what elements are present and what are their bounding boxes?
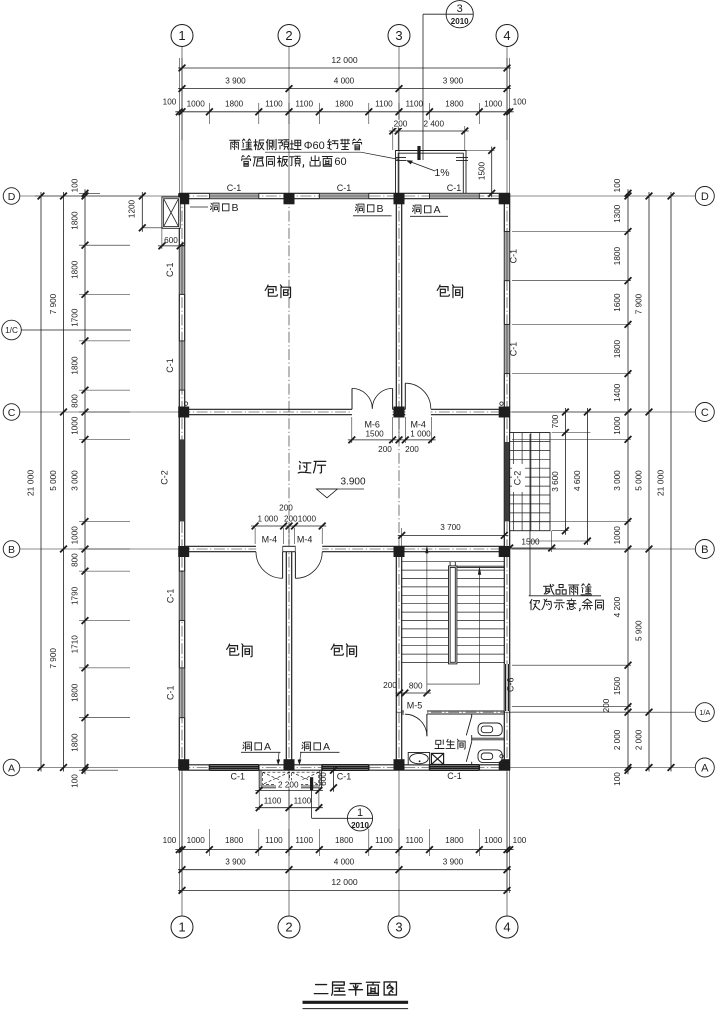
svg-text:100: 100 xyxy=(163,836,177,845)
svg-text:1800: 1800 xyxy=(335,836,354,845)
svg-text:4 600: 4 600 xyxy=(573,470,582,491)
note: canopy pipe annotation (2 lines) xyxy=(230,140,240,149)
svg-text:1800: 1800 xyxy=(71,683,80,702)
slope arrow 1% xyxy=(409,161,435,171)
svg-text:C-6: C-6 xyxy=(506,678,516,693)
dimension 200/800 (door M-5) xyxy=(396,692,431,694)
label 洞口A (bottom left) xyxy=(243,742,252,751)
floor openings box (bottom, axis 2) xyxy=(259,770,321,788)
extension lines left xyxy=(35,195,142,197)
grid line 1/A xyxy=(396,711,509,713)
window C-1 left wall upper 1 xyxy=(179,245,186,294)
svg-text:100: 100 xyxy=(613,772,622,786)
door M-4 right (row B) xyxy=(294,552,296,579)
svg-text:M-5: M-5 xyxy=(407,701,423,711)
dimension 3700 (hall to stair) xyxy=(398,534,509,536)
dimension chain bottom detail xyxy=(175,849,513,851)
window C-6 right wall (stair landing) dark xyxy=(504,664,510,711)
svg-text:1300: 1300 xyxy=(613,204,622,223)
room label 包间 (top-right) xyxy=(437,285,449,296)
svg-text:3: 3 xyxy=(395,920,402,935)
embedded pipe (top canopy) xyxy=(417,146,420,160)
wall column 3 lower (stair/bathroom west wall) xyxy=(395,552,397,765)
svg-text:600: 600 xyxy=(164,236,178,245)
extension lines top xyxy=(178,58,180,193)
svg-text:1500: 1500 xyxy=(365,430,384,439)
dimension 1200 (shaft) xyxy=(141,192,143,232)
stall door 2 (ajar) xyxy=(466,742,471,762)
wall left exterior xyxy=(178,193,180,770)
svg-text:Φ60: Φ60 xyxy=(304,140,325,152)
stair landing edge line xyxy=(457,565,504,567)
svg-text:1790: 1790 xyxy=(71,586,80,605)
axis circles top 1-4 xyxy=(171,25,193,47)
grid line 1/C xyxy=(22,329,132,331)
dimension 200/2400 (top canopy) xyxy=(389,130,469,132)
svg-text:1100: 1100 xyxy=(294,796,312,805)
svg-text:60: 60 xyxy=(334,156,346,168)
svg-text:3 900: 3 900 xyxy=(225,76,246,85)
grid line B xyxy=(20,548,179,550)
room label 卫生间 xyxy=(435,740,444,749)
svg-text:1100: 1100 xyxy=(264,796,282,805)
window C-1 left wall lower 1 xyxy=(179,571,186,621)
dimension line top 3900/4000/3900 xyxy=(178,88,511,90)
svg-text:M-4: M-4 xyxy=(410,420,426,430)
svg-text:1000: 1000 xyxy=(484,836,503,845)
svg-text:C-1: C-1 xyxy=(508,342,518,357)
svg-text:1800: 1800 xyxy=(445,100,464,109)
canopy (top, near axis 3) xyxy=(396,151,467,194)
stair treads xyxy=(402,562,505,663)
svg-text:12 000: 12 000 xyxy=(331,877,358,887)
svg-text:2 400: 2 400 xyxy=(424,120,445,129)
svg-text:2: 2 xyxy=(285,920,292,935)
dimension chain right detail xyxy=(627,189,629,774)
svg-text:C-1: C-1 xyxy=(231,772,246,782)
svg-text:B: B xyxy=(8,544,15,556)
svg-text:3 900: 3 900 xyxy=(443,857,464,866)
svg-text:A: A xyxy=(8,762,15,774)
stair walk line xyxy=(426,553,428,694)
window C-1 top wall bay 3-4 xyxy=(430,193,480,200)
svg-text:M-4: M-4 xyxy=(297,535,313,545)
room label 包间 (top-left) xyxy=(265,285,277,296)
dimension line bottom 12000 xyxy=(178,889,511,891)
detail balloon 1/2010 (bottom) xyxy=(347,806,372,831)
wall column 3 upper (between private rooms) xyxy=(395,199,397,410)
detail balloon 3/2010 (top) xyxy=(446,1,473,28)
canopy leader line xyxy=(529,434,531,596)
wall right exterior xyxy=(503,193,505,770)
grid line A xyxy=(20,767,179,769)
dimension line bottom 3900/4000/3900 xyxy=(178,869,511,871)
svg-text:A: A xyxy=(701,763,709,775)
door M-6 (double door at hall/room, row C) xyxy=(351,388,353,409)
window C-1 top wall bay 2-3 xyxy=(319,193,369,200)
drain riser circles xyxy=(184,402,187,405)
svg-text:1700: 1700 xyxy=(71,308,80,327)
svg-text:21 000: 21 000 xyxy=(26,470,36,497)
svg-text:1100: 1100 xyxy=(265,100,283,109)
svg-text:1800: 1800 xyxy=(613,339,622,358)
svg-text:1000: 1000 xyxy=(613,416,622,435)
door opening masks xyxy=(352,408,392,416)
dimension chain top detail xyxy=(175,111,513,113)
svg-text:C-2: C-2 xyxy=(160,470,170,485)
svg-text:200: 200 xyxy=(405,445,419,454)
dimension 600 (bottom box) xyxy=(333,766,335,792)
stair direction arrow (down flight) xyxy=(478,566,481,575)
svg-text:100: 100 xyxy=(71,178,80,192)
axis circles bottom 1-4 xyxy=(171,916,193,938)
svg-text:D: D xyxy=(8,191,16,203)
svg-text:1 000: 1 000 xyxy=(258,515,279,524)
svg-text:2010: 2010 xyxy=(351,821,369,830)
stall door 1 (ajar) xyxy=(466,716,471,735)
door M-4 left (row B) xyxy=(282,552,284,579)
dimension line left 7900/5000/7900 xyxy=(63,192,65,772)
svg-text:1800: 1800 xyxy=(71,356,80,375)
svg-text:C-1: C-1 xyxy=(447,183,462,193)
svg-text:2 000: 2 000 xyxy=(613,729,622,750)
svg-text:1500: 1500 xyxy=(478,161,487,180)
svg-text:2: 2 xyxy=(285,28,292,43)
opening X panel 2 (dashed) xyxy=(292,772,319,784)
svg-text:3: 3 xyxy=(457,3,463,15)
bathroom stall partition xyxy=(471,714,473,717)
svg-text:7 900: 7 900 xyxy=(635,293,644,314)
svg-text:1710: 1710 xyxy=(71,635,80,654)
wall row C interior xyxy=(185,408,352,410)
svg-text:100: 100 xyxy=(613,178,622,192)
svg-text:C-1: C-1 xyxy=(166,686,176,701)
window C-1 left wall upper 2 xyxy=(179,341,186,390)
svg-text:1/C: 1/C xyxy=(5,326,18,335)
window C-1 bottom wall bay 1-2 xyxy=(209,764,258,771)
svg-text:800: 800 xyxy=(71,394,80,408)
dimension 1500 (top canopy height) xyxy=(491,147,493,198)
svg-text:B: B xyxy=(232,202,239,214)
svg-text:3 000: 3 000 xyxy=(71,470,80,491)
svg-text:1800: 1800 xyxy=(445,836,464,845)
wall row B interior xyxy=(185,545,256,547)
svg-text:100: 100 xyxy=(163,98,177,107)
svg-text:1800: 1800 xyxy=(335,100,354,109)
svg-text:C-1: C-1 xyxy=(447,771,462,781)
svg-text:7 900: 7 900 xyxy=(49,648,58,669)
svg-text:5 000: 5 000 xyxy=(635,470,644,491)
svg-text:600: 600 xyxy=(319,772,328,786)
svg-text:3 700: 3 700 xyxy=(440,523,461,532)
svg-text:A: A xyxy=(264,741,271,753)
floor drain xyxy=(431,753,443,764)
door M-5 (bathroom) xyxy=(426,714,428,736)
dimension M-4/M-4 row B xyxy=(251,525,326,527)
wall row 1/A (bathroom north wall) xyxy=(402,710,405,712)
svg-text:7 900: 7 900 xyxy=(49,293,58,314)
svg-text:C: C xyxy=(701,407,709,419)
flue shaft (top-left, with X) xyxy=(162,197,180,228)
svg-text:4: 4 xyxy=(503,28,510,43)
svg-text:1800: 1800 xyxy=(71,260,80,279)
svg-text:C-1: C-1 xyxy=(337,183,352,193)
stall divider wall xyxy=(472,737,505,739)
svg-text:1: 1 xyxy=(178,28,185,43)
svg-text:C-1: C-1 xyxy=(337,772,352,782)
svg-text:4 000: 4 000 xyxy=(334,857,355,866)
svg-text:1100: 1100 xyxy=(265,836,283,845)
svg-text:1000: 1000 xyxy=(484,100,503,109)
svg-text:2 200: 2 200 xyxy=(278,781,299,790)
svg-text:3 000: 3 000 xyxy=(613,470,622,491)
svg-text:A: A xyxy=(434,204,441,216)
svg-text:1500: 1500 xyxy=(521,538,540,547)
svg-text:C-2: C-2 xyxy=(512,471,522,486)
svg-text:1100: 1100 xyxy=(405,100,423,109)
svg-text:200: 200 xyxy=(383,681,397,690)
svg-text:C-1: C-1 xyxy=(227,183,242,193)
svg-text:1000: 1000 xyxy=(187,836,206,845)
dimension line top 12000 xyxy=(178,67,511,69)
window C-1 left wall lower 2 xyxy=(179,668,186,718)
opening X panel 1 (dashed) xyxy=(262,772,289,784)
svg-text:1000: 1000 xyxy=(613,526,622,545)
window C-1 top wall bay 1-2 xyxy=(209,193,258,200)
grid line D xyxy=(20,195,180,197)
svg-text:800: 800 xyxy=(409,682,423,691)
svg-text:4 000: 4 000 xyxy=(334,76,355,85)
svg-text:1800: 1800 xyxy=(71,211,80,230)
drawing title 二层平面图 xyxy=(314,985,328,994)
svg-text:2 000: 2 000 xyxy=(635,729,644,750)
svg-text:1100: 1100 xyxy=(295,836,313,845)
svg-text:4 200: 4 200 xyxy=(613,596,622,617)
svg-text:200: 200 xyxy=(378,445,392,454)
grid line 2 xyxy=(288,47,290,194)
svg-text:200: 200 xyxy=(279,504,293,513)
dimension 4600 (right canopy) xyxy=(586,408,588,545)
svg-text:1400: 1400 xyxy=(613,383,622,402)
structural columns (black squares) xyxy=(178,193,189,204)
svg-text:A: A xyxy=(323,741,330,753)
svg-text:C-1: C-1 xyxy=(165,263,175,278)
room label 过厅 xyxy=(298,461,311,473)
svg-text:1: 1 xyxy=(357,807,363,819)
canopy break marks xyxy=(396,157,406,159)
stair direction arrow at row B wall xyxy=(425,545,428,553)
room label 包间 (bottom-left) xyxy=(227,644,239,655)
svg-text:3.900: 3.900 xyxy=(340,477,365,488)
axis circles left D,1/C,C,B,A xyxy=(3,188,20,205)
svg-text:700: 700 xyxy=(551,414,560,428)
svg-text:1100: 1100 xyxy=(295,100,313,109)
svg-text:C-1: C-1 xyxy=(508,249,518,264)
dimension M-6/M-4 row C xyxy=(348,439,436,441)
svg-text:1000: 1000 xyxy=(187,100,206,109)
window C-1 right wall upper 2 xyxy=(504,324,511,373)
svg-text:12 000: 12 000 xyxy=(331,55,358,65)
svg-text:1500: 1500 xyxy=(613,676,622,695)
svg-text:1: 1 xyxy=(178,920,185,935)
dimension line right 21000 xyxy=(670,192,672,772)
grid line C xyxy=(20,411,179,413)
svg-text:800: 800 xyxy=(71,553,80,567)
svg-text:1000: 1000 xyxy=(71,416,80,435)
note leader (canopy) xyxy=(265,151,361,153)
svg-text:M-6: M-6 xyxy=(364,420,380,430)
note 成品雨篷 / 仅为示意,余同 xyxy=(543,584,554,594)
level marker 3.900 xyxy=(316,489,337,498)
svg-text:1600: 1600 xyxy=(613,293,622,312)
embedded pipe (bottom) xyxy=(310,777,313,790)
window C-2 right wall (hall) dark xyxy=(505,442,510,522)
dimension line right 7900/5000/5900/2000 xyxy=(648,192,650,772)
wall column 2 lower (between private rooms) xyxy=(285,552,287,765)
svg-text:C-1: C-1 xyxy=(165,358,175,373)
wall top exterior (row D) xyxy=(179,192,509,194)
svg-text:B: B xyxy=(377,203,384,215)
svg-text:1800: 1800 xyxy=(613,247,622,266)
dimension 600 (shaft) xyxy=(158,245,184,247)
window C-1 bottom wall bay 2-3 (partial at shaft) xyxy=(322,764,369,771)
svg-text:4: 4 xyxy=(503,920,510,935)
axis circles right D,C,B,1/A,A xyxy=(695,187,714,206)
grid line 3 xyxy=(398,47,400,194)
label 洞口A (bottom right) xyxy=(302,742,311,751)
svg-text:1800: 1800 xyxy=(225,100,244,109)
dimension line left 21000 xyxy=(40,192,42,772)
svg-text:3: 3 xyxy=(395,28,402,43)
svg-text:C: C xyxy=(8,407,16,419)
dimension 2200 (bottom box) xyxy=(255,789,323,791)
svg-text:1/A: 1/A xyxy=(699,708,710,717)
dimension 1100/1100 (bottom box) xyxy=(255,807,323,809)
label 洞口A (top) xyxy=(412,205,421,214)
svg-text:1800: 1800 xyxy=(225,836,244,845)
prefab canopy right side (gridded) xyxy=(510,433,550,531)
grid line 1 xyxy=(181,47,183,194)
window C-1 bottom wall bay 3-4 xyxy=(430,764,480,771)
svg-text:3 900: 3 900 xyxy=(225,857,246,866)
svg-text:3 900: 3 900 xyxy=(443,76,464,85)
svg-text:1800: 1800 xyxy=(71,733,80,752)
dimension 700/3600 (right canopy) xyxy=(564,408,566,535)
svg-text:1200: 1200 xyxy=(128,199,137,218)
label 洞口B (top-middle) xyxy=(355,204,364,213)
svg-text:100: 100 xyxy=(513,836,527,845)
svg-text:200: 200 xyxy=(394,120,408,129)
extension lines bottom xyxy=(178,770,180,893)
svg-text:M-4: M-4 xyxy=(262,535,278,545)
svg-text:100: 100 xyxy=(513,98,527,107)
svg-text:5 900: 5 900 xyxy=(635,620,644,641)
squat toilet 2 xyxy=(478,750,502,763)
svg-text:1 000: 1 000 xyxy=(410,430,431,439)
svg-text:D: D xyxy=(701,191,709,203)
wall bottom exterior (row A) xyxy=(179,764,509,766)
wash basin xyxy=(408,753,429,765)
svg-text:1000: 1000 xyxy=(298,515,317,524)
svg-text:2010: 2010 xyxy=(451,17,469,26)
dimension chain left detail xyxy=(84,189,86,774)
door M-4 (row C right) xyxy=(404,383,406,409)
svg-text:1%: 1% xyxy=(434,167,449,179)
label 洞口B (top-left) xyxy=(210,203,219,212)
dimension 1500 (right canopy width at B) xyxy=(506,547,556,549)
svg-text:3 600: 3 600 xyxy=(551,471,560,492)
room label 包间 (bottom-middle) xyxy=(331,644,343,655)
window C-1 right wall upper 1 xyxy=(504,232,511,281)
svg-text:B: B xyxy=(701,544,708,556)
svg-text:5 000: 5 000 xyxy=(49,470,58,491)
svg-text:1100: 1100 xyxy=(405,836,423,845)
door post row B column 2 xyxy=(283,546,296,551)
stair handrail (center) xyxy=(449,566,457,664)
svg-text:C-1: C-1 xyxy=(166,589,176,604)
svg-text:100: 100 xyxy=(71,774,80,788)
squat toilet 1 xyxy=(478,723,502,736)
window C-2 left wall (hall) dark xyxy=(180,439,185,521)
svg-text:200: 200 xyxy=(284,515,298,524)
svg-text:21 000: 21 000 xyxy=(656,470,666,497)
grid line 4 xyxy=(506,47,508,194)
svg-text:1000: 1000 xyxy=(71,526,80,545)
svg-text:1100: 1100 xyxy=(375,836,393,845)
svg-text:200: 200 xyxy=(602,698,611,712)
svg-text:1100: 1100 xyxy=(375,100,393,109)
